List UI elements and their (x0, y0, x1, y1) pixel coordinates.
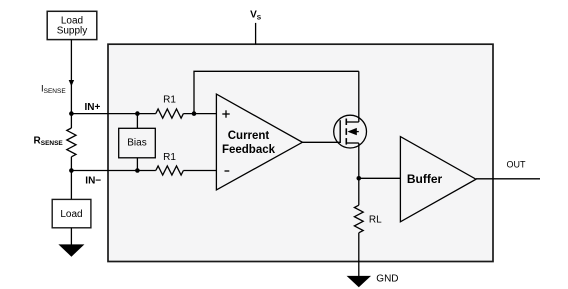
wire node to buffer (359, 177, 401, 179)
svg-text:Supply: Supply (57, 26, 88, 37)
svg-text:Current: Current (228, 130, 270, 142)
wire load supply to IN+ node (70, 40, 72, 114)
svg-text:IN−: IN− (85, 175, 101, 186)
load supply box (47, 11, 97, 39)
svg-text:Bias: Bias (127, 137, 146, 148)
wire bias bottom (136, 158, 138, 171)
op-amp + input symbol (222, 113, 229, 115)
resistor RSENSE (67, 128, 76, 157)
wire R1 bottom to op-amp - (183, 170, 216, 172)
wire source vertical (358, 143, 360, 178)
wire bias top (136, 114, 138, 129)
svg-text:OUT: OUT (507, 160, 527, 170)
Q1 drain horizontal (346, 121, 359, 123)
ground symbol GND (347, 276, 371, 287)
wire RSENSE leads (70, 114, 72, 128)
Q1 source horizontal (346, 142, 359, 144)
node dot IN+ left (69, 111, 74, 116)
wire load to ground (70, 228, 72, 245)
resistor R1 top (156, 109, 184, 118)
buffer amplifier U3 (400, 137, 476, 222)
Q1 channel segment bottom (345, 138, 347, 145)
svg-text:Buffer: Buffer (407, 172, 443, 186)
Q1 gate bar (339, 120, 341, 143)
current direction arrow (69, 80, 74, 86)
node dot source/RL/buffer (357, 176, 362, 181)
svg-text:Load: Load (60, 209, 82, 220)
bias box (119, 128, 156, 158)
wire load (70, 171, 72, 200)
Q1 body line (350, 131, 359, 133)
node dot bias bottom (135, 168, 140, 173)
resistor RL (354, 205, 363, 233)
op-amp U2 current feedback (216, 94, 302, 190)
wire RL top lead (358, 178, 360, 205)
wire OUT (476, 178, 540, 180)
op-amp - input symbol (225, 170, 230, 172)
Q1 body arrow (347, 128, 356, 135)
wire R1 top to op-amp + (183, 113, 216, 115)
svg-text:ISENSE: ISENSE (41, 83, 66, 95)
svg-text:IN+: IN+ (85, 102, 101, 113)
svg-text:GND: GND (376, 274, 398, 285)
wire IN- left segment (71, 170, 155, 172)
svg-text:R1: R1 (163, 95, 176, 106)
Q1 channel segment top (345, 119, 347, 126)
svg-text:RSENSE: RSENSE (34, 135, 64, 147)
svg-text:VS: VS (250, 10, 262, 22)
IC body box U1 (108, 44, 493, 261)
wire RL to ground (358, 233, 360, 276)
svg-text:Feedback: Feedback (222, 144, 276, 156)
resistor R1 bottom (156, 166, 184, 175)
Q1 channel segment middle (345, 128, 347, 135)
node dot IN- left (69, 168, 74, 173)
svg-text:R1: R1 (163, 152, 176, 163)
wire drain vertical (358, 71, 360, 122)
node dot bias top (135, 111, 140, 116)
wire IN+ left segment (71, 113, 155, 115)
wire op-amp output to gate (302, 141, 340, 143)
node dot feedback tap (192, 111, 197, 116)
wire VS stub (255, 23, 257, 44)
transistor Q1 MOSFET circle (334, 115, 367, 148)
wire feedback loop (194, 71, 359, 113)
load box (52, 199, 91, 227)
ground symbol left (58, 244, 84, 256)
svg-text:RL: RL (369, 214, 382, 225)
